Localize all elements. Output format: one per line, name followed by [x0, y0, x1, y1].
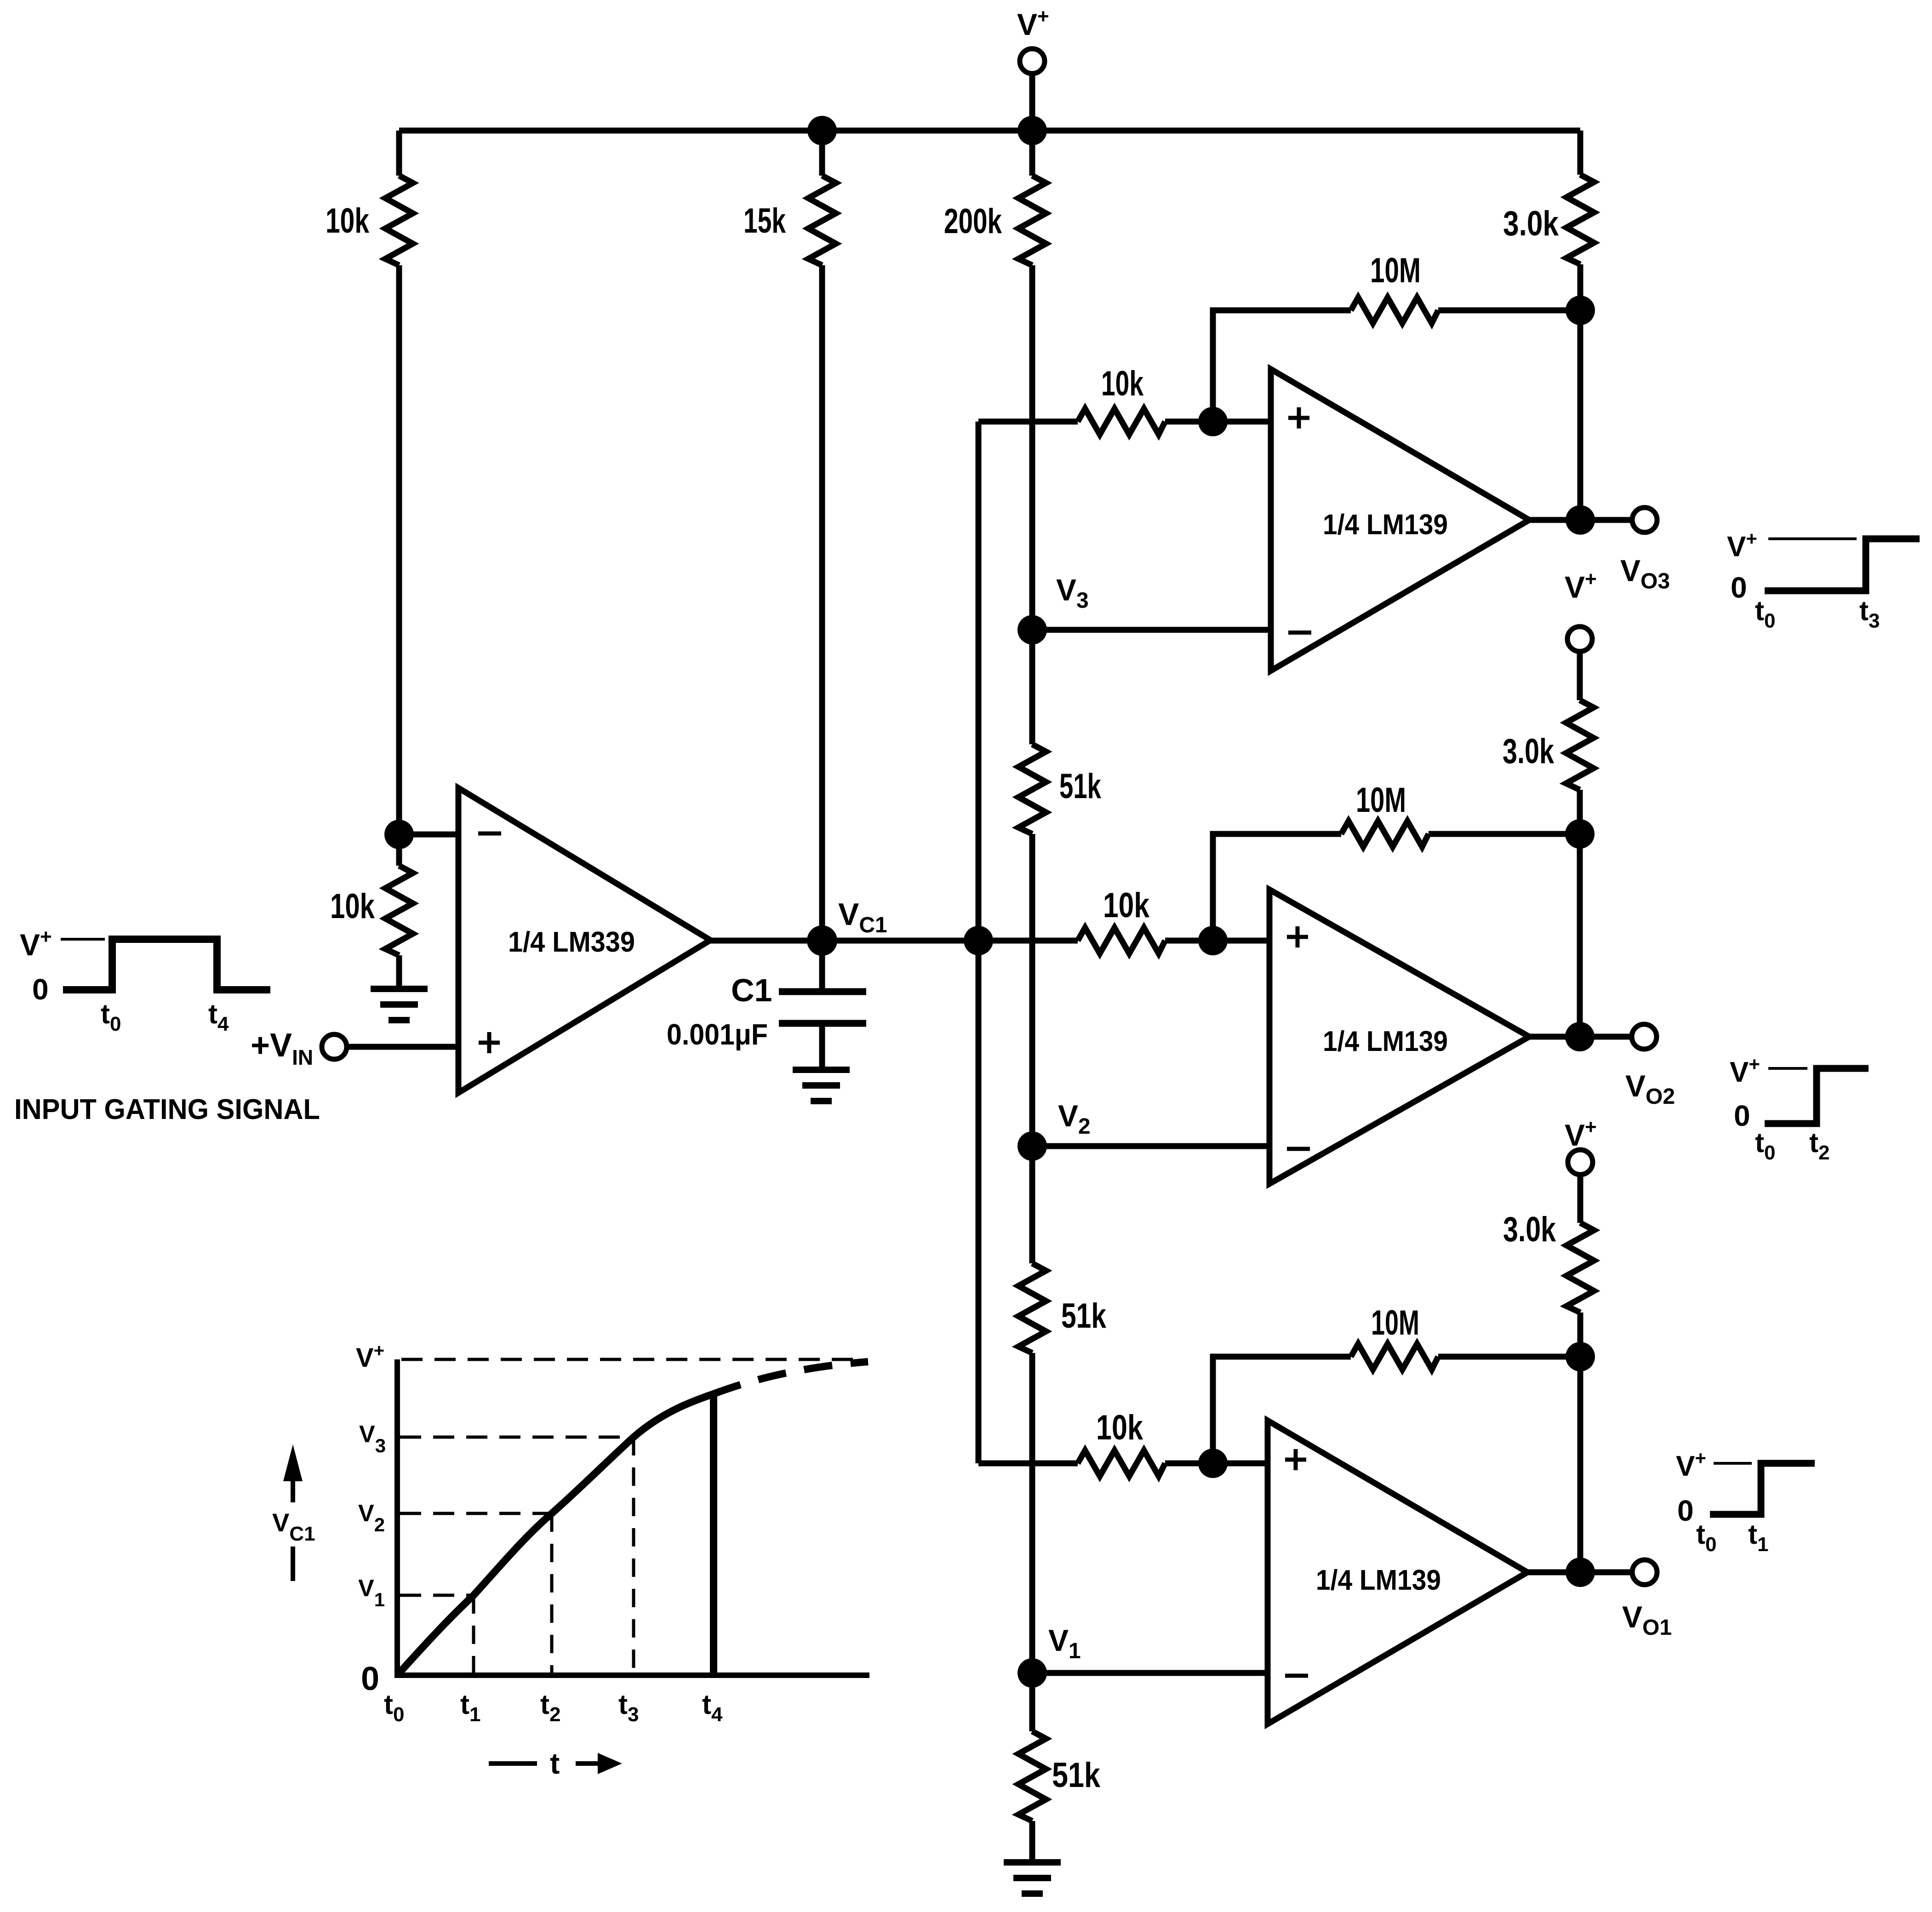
- wire to - input: [399, 832, 458, 838]
- node V2: [1017, 1131, 1047, 1161]
- wire + input (comp 2): [978, 938, 1078, 944]
- node junction 10M / 3.0k (comp 2): [1565, 819, 1595, 849]
- wire output vertical (comp 1): [1578, 310, 1583, 520]
- wire left branch down: [396, 131, 402, 176]
- svg-text:10k: 10k: [330, 887, 375, 926]
- wire feedback to output pull-up (comp 3): [1438, 1354, 1580, 1360]
- node junction inverting input LM339: [384, 820, 414, 849]
- resistor 10k (to ground at - input): [385, 866, 413, 955]
- graph t1 dashed vertical: [472, 1595, 475, 1675]
- node output junction (comp 2): [1565, 1022, 1595, 1051]
- terminal output (comp 1): [1632, 508, 1657, 532]
- wire feedback up (comp 3): [1213, 1357, 1351, 1463]
- graph V3 dashed level: [400, 1436, 634, 1439]
- node junction + input / 10M (comp 1): [1198, 407, 1228, 436]
- terminal V+ (comp 2 pull-up): [1567, 627, 1592, 651]
- svg-text:t: t: [550, 1747, 560, 1780]
- svg-text:51k: 51k: [1052, 1756, 1101, 1795]
- waveform input gating signal pulse: [63, 939, 270, 990]
- node junction 10M / 3.0k (comp 1): [1566, 296, 1595, 325]
- svg-text:0.001μF: 0.001μF: [667, 1018, 768, 1051]
- wire feedback up (comp 1): [1213, 310, 1351, 422]
- pin + (comp 2): [1287, 926, 1308, 947]
- wire: [1165, 419, 1271, 425]
- wire V2 to - input: [1032, 1143, 1269, 1149]
- capacitor C1 0.001uF: [819, 941, 825, 988]
- waveform output step (comp 1) V+ level: [1768, 537, 1857, 540]
- wire feedback to output pull-up (comp 2): [1429, 831, 1580, 837]
- svg-text:51k: 51k: [1061, 1296, 1107, 1336]
- resistor 10M (comp 1): [1351, 297, 1438, 323]
- wire output vertical (comp 2): [1577, 834, 1583, 1037]
- ground (below C1): [793, 1070, 850, 1101]
- svg-text:0: 0: [1731, 571, 1747, 604]
- terminal V+ (top): [1020, 49, 1045, 74]
- resistor 51k (V1-gnd): [1029, 1673, 1035, 1731]
- resistor 51k (V2-V1): [1029, 1146, 1035, 1263]
- graph x-axis label t with arrow: [489, 1761, 537, 1766]
- resistor 10M (comp 3): [1351, 1344, 1438, 1370]
- wire feedback up (comp 2): [1213, 834, 1341, 941]
- resistor 10k (comp 3 + input): [1078, 1450, 1165, 1476]
- wire output (comp 2): [1529, 1034, 1632, 1040]
- waveform output step (comp 1) 0 level and step: [1765, 539, 1920, 591]
- graph t2 dashed vertical: [550, 1513, 554, 1675]
- svg-text:C1: C1: [731, 972, 772, 1008]
- svg-text:INPUT GATING SIGNAL: INPUT GATING SIGNAL: [14, 1094, 320, 1125]
- node VC1 junction: [807, 925, 837, 956]
- wire V1 to - input: [1032, 1670, 1268, 1676]
- svg-text:0: 0: [32, 973, 49, 1006]
- node output junction (comp 1): [1566, 505, 1595, 535]
- pin - (comp 2): [1287, 1147, 1310, 1151]
- svg-text:3.0k: 3.0k: [1503, 732, 1555, 771]
- node output junction (comp 3): [1566, 1558, 1595, 1587]
- wire: [1165, 1461, 1268, 1467]
- svg-text:1/4 LM139: 1/4 LM139: [1323, 509, 1448, 541]
- svg-text:10k: 10k: [326, 201, 370, 240]
- svg-text:10k: 10k: [1103, 886, 1150, 925]
- node V1: [1017, 1658, 1047, 1688]
- node junction 15k on rail: [807, 116, 837, 145]
- resistor 51k (V3-V2): [1029, 630, 1035, 744]
- wire + input (comp 1): [978, 419, 1078, 425]
- svg-text:0: 0: [1677, 1494, 1694, 1527]
- svg-text:10k: 10k: [1096, 1408, 1143, 1447]
- graph dashed continuation curve: [714, 1362, 868, 1394]
- wire output vertical (comp 3): [1578, 1357, 1583, 1572]
- wire feedback to output pull-up (comp 1): [1438, 308, 1580, 314]
- wire output (comp 3): [1527, 1570, 1632, 1575]
- svg-text:15k: 15k: [743, 201, 786, 240]
- graph t4 discharge drop: [710, 1395, 717, 1675]
- terminal output (comp 2): [1632, 1024, 1657, 1049]
- svg-text:10k: 10k: [1101, 364, 1144, 403]
- graph y-axis label arrow up: [291, 1479, 295, 1502]
- resistor 10k (comp 2 + input): [1078, 928, 1165, 953]
- terminal +VIN: [322, 1034, 347, 1059]
- waveform output step (comp 2) V+ level: [1768, 1067, 1807, 1070]
- graph VC1 charge curve: [397, 1394, 714, 1675]
- wire output (comp 1): [1529, 517, 1632, 523]
- op-amp comparator 1/4 LM139 (comp 3): [1268, 1421, 1527, 1724]
- waveform output step (comp 2) 0 level and step: [1765, 1068, 1869, 1124]
- waveform output step (comp 3) 0 level and step: [1710, 1463, 1815, 1514]
- svg-text:3.0k: 3.0k: [1503, 1210, 1556, 1249]
- resistor 15k: [819, 131, 825, 176]
- wire V3 to - input: [1032, 627, 1271, 633]
- pin - (comp 3): [1285, 1674, 1308, 1678]
- node junction VC1 bus: [964, 926, 993, 955]
- svg-text:0: 0: [361, 1661, 379, 1697]
- resistor 10k (comp 1 + input): [1078, 409, 1165, 434]
- terminal output (comp 3): [1632, 1560, 1657, 1585]
- graph V1 dashed level: [400, 1594, 474, 1597]
- svg-text:3.0k: 3.0k: [1503, 204, 1559, 243]
- op-amp comparator 1/4 LM139 (comp 1): [1271, 369, 1529, 671]
- wire + input (comp 3): [978, 1461, 1078, 1467]
- op-amp comparator U1 1/4 LM339: [458, 788, 710, 1093]
- node junction 10M / 3.0k (comp 3): [1566, 1342, 1595, 1371]
- wire LM339 output: [710, 938, 1078, 944]
- pin - (comp 1): [1288, 631, 1311, 635]
- pin - (LM339): [478, 832, 501, 836]
- resistor 3.0k (comp 1 pull-up to rail): [1578, 131, 1583, 175]
- wire top V+ rail: [399, 128, 1580, 134]
- node junction + input / 10M (comp 3): [1198, 1449, 1228, 1478]
- graph t3 dashed vertical: [632, 1437, 635, 1675]
- node junction + input / 10M (comp 2): [1198, 926, 1228, 955]
- graph y-axis label bar: [291, 1547, 295, 1581]
- svg-text:1/4 LM139: 1/4 LM139: [1316, 1564, 1441, 1596]
- graph V2 dashed level: [400, 1512, 552, 1515]
- wire: [1165, 938, 1269, 944]
- ground (divider bottom): [1004, 1862, 1061, 1894]
- waveform output step (comp 3) V+ level: [1714, 1462, 1752, 1465]
- pin + (comp 1): [1288, 407, 1309, 428]
- waveform input gating signal V+ level: [61, 938, 105, 941]
- ground (below 10k): [371, 989, 428, 1020]
- svg-text:200k: 200k: [944, 202, 1002, 241]
- wire: [396, 265, 402, 834]
- graph V+ dashed level: [401, 1358, 853, 1361]
- svg-text:10M: 10M: [1356, 781, 1406, 820]
- svg-text:10M: 10M: [1371, 1303, 1419, 1342]
- wire VC1 bus vertical: [976, 422, 982, 1463]
- pin + (LM339): [479, 1032, 500, 1053]
- svg-text:10M: 10M: [1370, 251, 1421, 290]
- pin + (comp 3): [1285, 1449, 1306, 1470]
- op-amp comparator 1/4 LM139 (comp 2): [1269, 890, 1529, 1184]
- svg-text:1/4 LM139: 1/4 LM139: [1323, 1026, 1448, 1057]
- svg-text:0: 0: [1734, 1099, 1750, 1132]
- svg-text:1/4 LM339: 1/4 LM339: [508, 926, 635, 958]
- resistor 10M (comp 2): [1341, 821, 1429, 847]
- graph axes: [397, 1359, 869, 1675]
- terminal V+ (comp 3 pull-up): [1568, 1150, 1593, 1175]
- node V3: [1017, 615, 1047, 645]
- svg-text:51k: 51k: [1059, 767, 1102, 806]
- node junction V+/200k on rail: [1017, 116, 1047, 145]
- resistor 3.0k (comp 2): [1577, 651, 1583, 700]
- resistor 200k: [1029, 131, 1035, 176]
- resistor 3.0k (comp 3): [1578, 1175, 1583, 1223]
- resistor 10k (left pull-up): [385, 176, 413, 265]
